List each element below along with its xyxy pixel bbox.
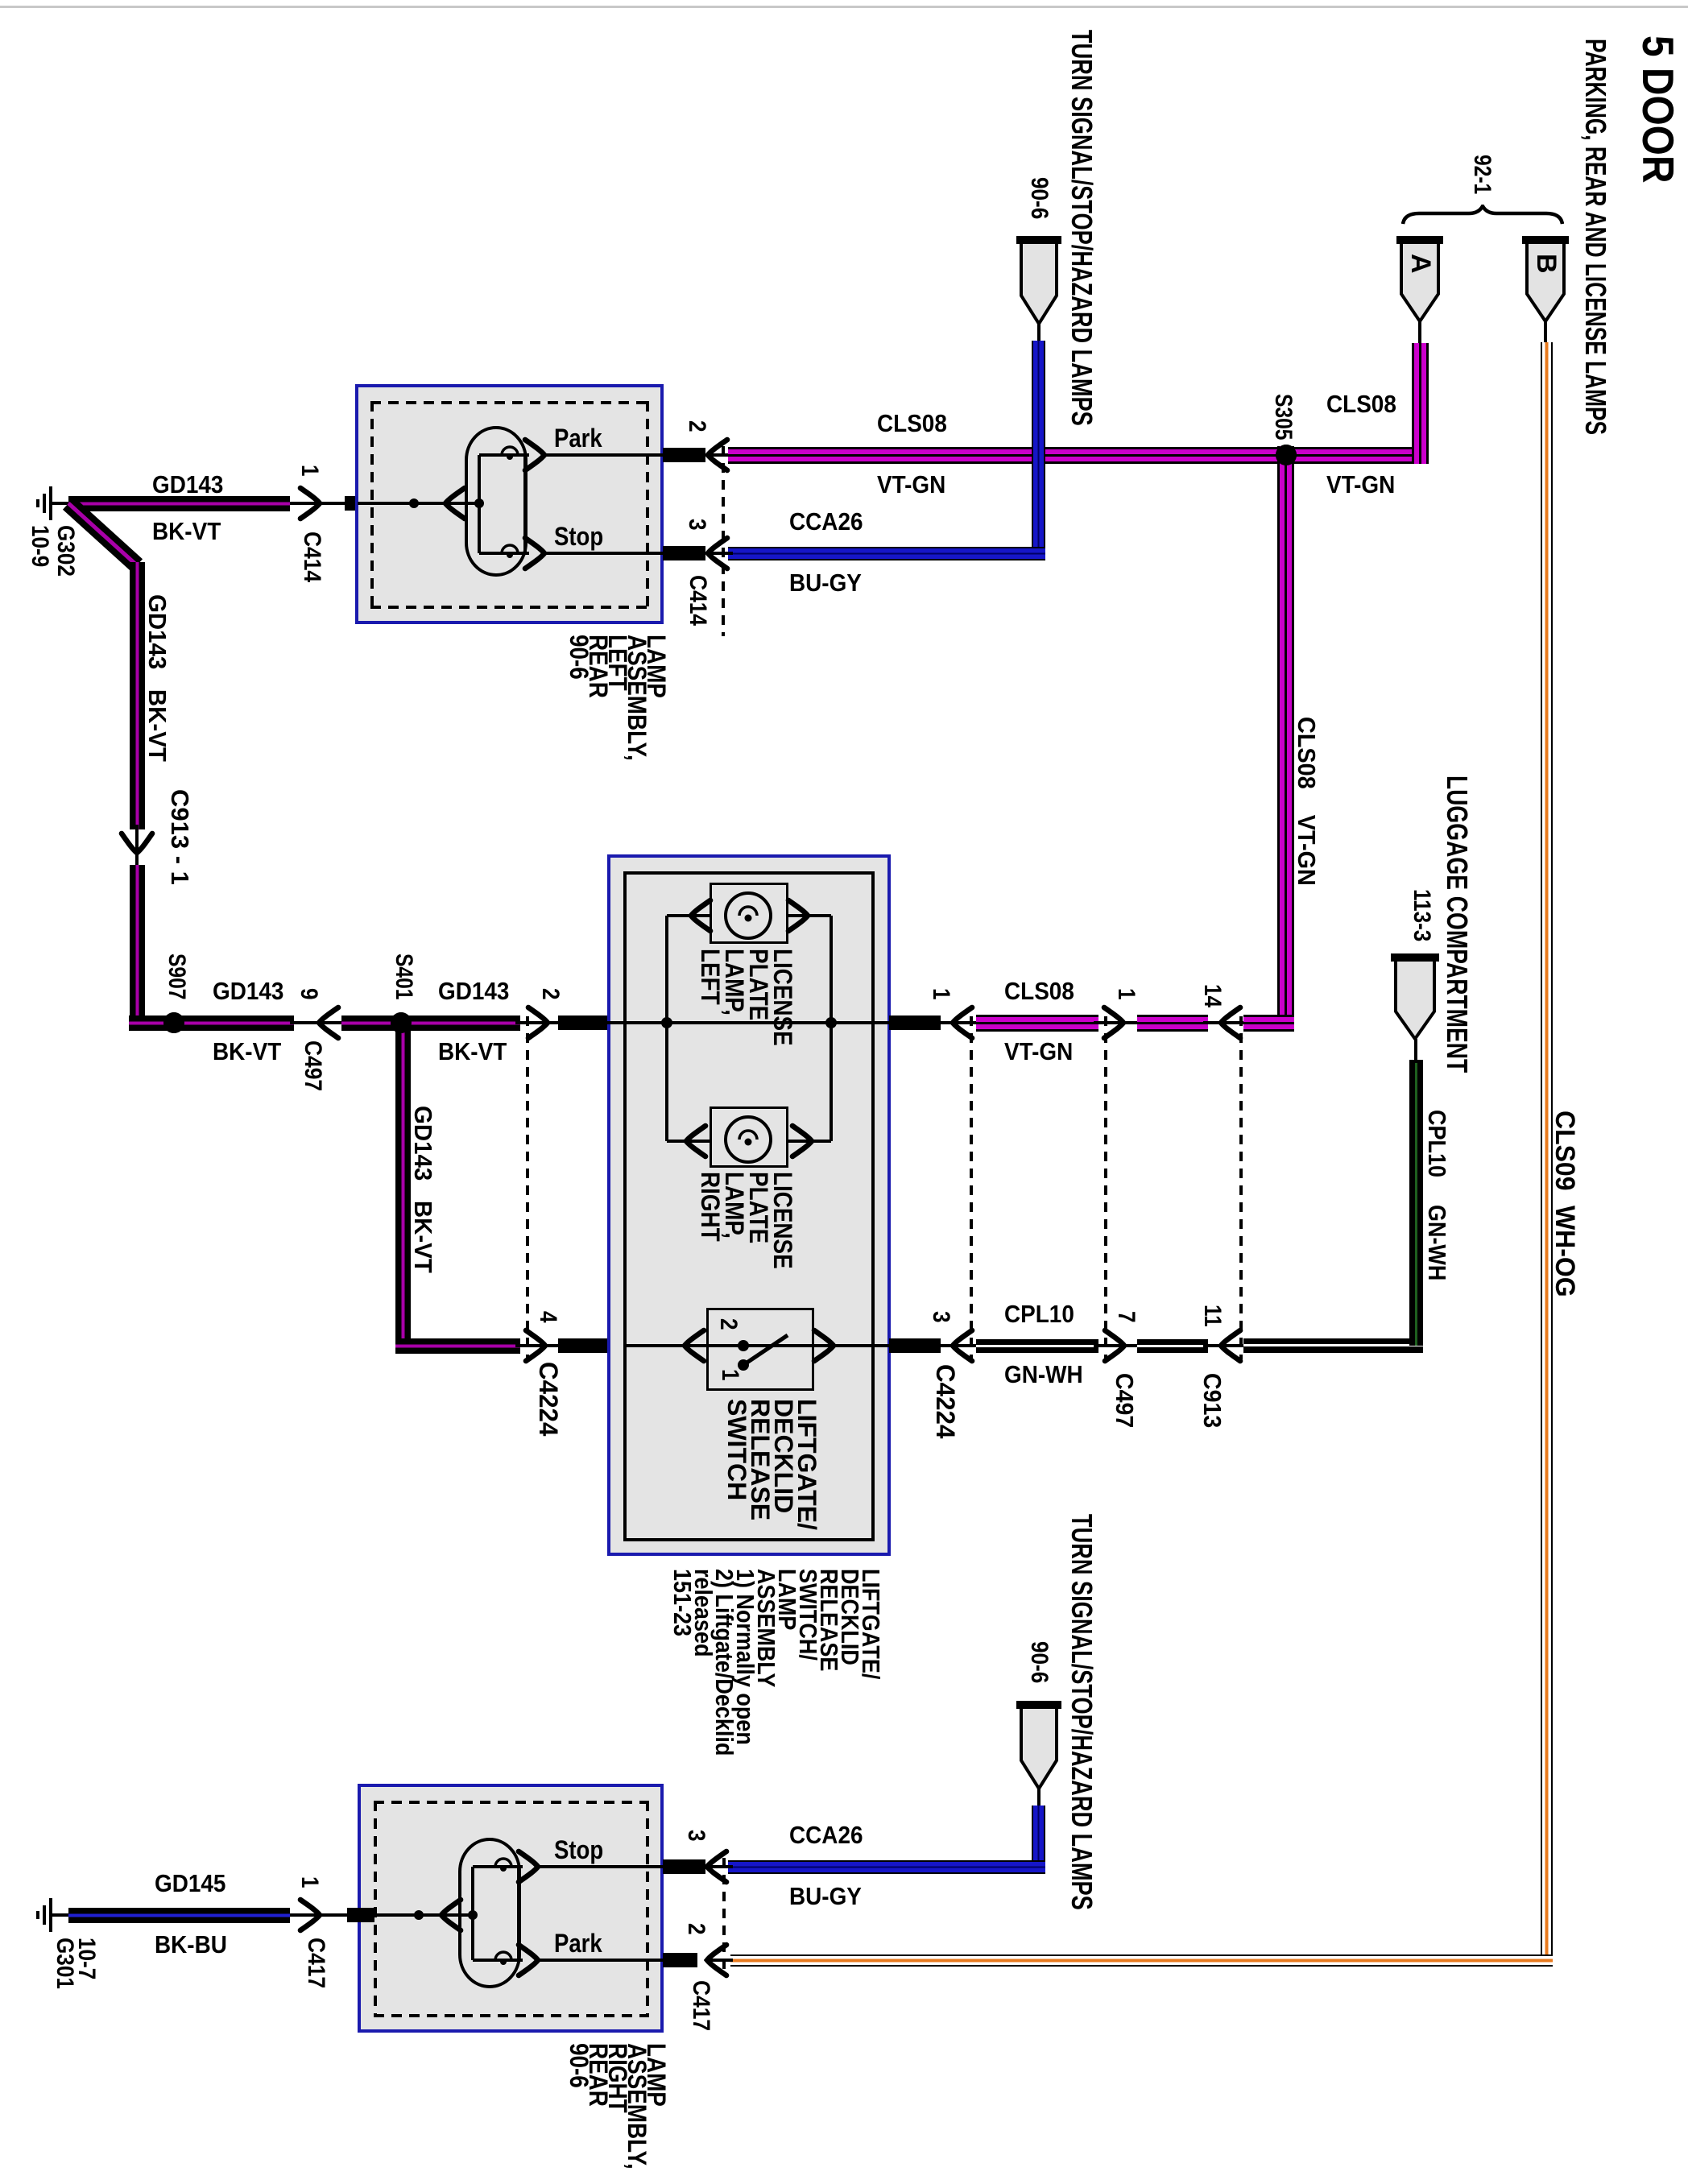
stub pin4 into middle box xyxy=(558,1338,610,1353)
label C414 left xyxy=(300,532,325,582)
switch pin2 dot xyxy=(738,1340,749,1351)
connector boundary C497 xyxy=(1104,1016,1107,1359)
connector arrow C414 pin1 xyxy=(297,485,323,522)
subtitle PARKING REAR AND LICENSE LAMPS xyxy=(1580,39,1611,435)
bulb dual filament left rear xyxy=(465,426,527,577)
connector arrow pin2 middle box xyxy=(525,1004,551,1041)
connector arrow pin2 xyxy=(705,436,730,474)
connector arrow pin1 xyxy=(949,1004,975,1041)
wire thin CPL10 at C913 xyxy=(1203,1344,1248,1347)
arrow lamp right < xyxy=(683,1123,709,1160)
bulb dual filament right rear rail right xyxy=(517,1867,520,1960)
pin 4 (C4224 left) xyxy=(536,1311,561,1323)
label CLS08 VT-GN vertical xyxy=(1293,717,1319,886)
label Stop xyxy=(554,523,603,551)
wire thin to C417 pin1 xyxy=(290,1913,360,1917)
connector arrow C417 pin1 xyxy=(297,1897,323,1934)
switch label 1 xyxy=(718,1369,743,1381)
label Park xyxy=(554,425,602,453)
wire bulb entry xyxy=(358,502,479,505)
inner dashed boundary xyxy=(370,401,649,404)
wire B lead xyxy=(1544,321,1547,346)
wire thin park-CLS09 xyxy=(707,1959,733,1962)
license plate lamp left circle xyxy=(723,891,773,941)
inner dashed boundary bottom box xyxy=(374,1801,649,1804)
connector A xyxy=(1396,236,1443,325)
label 10-9 xyxy=(27,525,53,567)
label S305 xyxy=(1271,394,1297,440)
stub pin1 out of middle box xyxy=(889,1015,941,1030)
bulb dual filament right rear filament bottom xyxy=(494,1950,513,1970)
label Park bottom xyxy=(554,1930,602,1958)
switch pin1 dot xyxy=(738,1359,749,1371)
bulb dual filament right rear rail left xyxy=(471,1867,474,1960)
wire park inside box bottom xyxy=(538,1959,668,1962)
connector arrow C497 pin7 xyxy=(1102,1327,1127,1364)
wire GD143 S401-pin4 xyxy=(395,1338,520,1354)
stub stop pin3 bottom xyxy=(663,1859,705,1874)
connector arrow pin3 xyxy=(949,1327,975,1364)
arrow switch > xyxy=(811,1327,837,1364)
stub park pin2 xyxy=(663,448,705,462)
bulb dual filament left rear filament bottom xyxy=(500,544,519,563)
wire GD143 vertical drop xyxy=(130,562,145,829)
connector arrow C913 pin14 xyxy=(1218,1004,1243,1041)
wire switch row inside box xyxy=(623,1344,874,1347)
junction dot bulb rail bottom xyxy=(468,1910,478,1920)
wire thin CPL10 at C497 xyxy=(1094,1344,1144,1347)
label VT-GN right xyxy=(1326,472,1395,498)
stub pin2 into middle box xyxy=(558,1015,610,1030)
bulb dual filament right rear xyxy=(458,1838,521,1988)
splice S401 overlay xyxy=(391,1012,412,1033)
arrow lamp left < xyxy=(688,897,714,934)
label LAMP ASSEMBLY LEFT REAR 90-6 xyxy=(569,635,666,761)
wire thin to C414 pin1 xyxy=(290,502,358,505)
wire CLS08 seg C497-C913 xyxy=(1137,1015,1208,1032)
label BU-GY bottom xyxy=(789,1884,862,1910)
label CPL10 xyxy=(1004,1301,1074,1328)
lamp assembly right rear box xyxy=(358,1784,664,2033)
wire 90-6 bottom lead xyxy=(1037,1789,1041,1809)
wire CLS09 WH-OG bottom xyxy=(730,1954,1553,1967)
connector boundary C4224 left xyxy=(526,1016,529,1359)
label GN-WH riser xyxy=(1423,1205,1450,1280)
wire CPL10 seg C4224-C497 xyxy=(976,1339,1098,1353)
label C497 right xyxy=(1111,1373,1137,1428)
connector arrow pin3 xyxy=(705,535,730,572)
wire thin pin3 xyxy=(874,1344,978,1347)
splice S907 overlay xyxy=(163,1012,184,1033)
wire CPL10 GN-WH riser xyxy=(1409,1060,1423,1346)
switch label 2 xyxy=(716,1318,742,1330)
bulb dual filament left rear rail right xyxy=(523,455,527,553)
wire stop inside box xyxy=(544,552,668,555)
stub pin3 out of middle box xyxy=(889,1338,941,1353)
bulb dual filament right rear branch bottom xyxy=(473,1959,523,1962)
license lamps / liftgate switch assembly box xyxy=(607,854,891,1556)
connector boundary C417 xyxy=(722,1858,726,1971)
wire CPL10 seg C497-C913 xyxy=(1137,1339,1208,1353)
wire thin at C4224 pin4 xyxy=(515,1344,612,1347)
stub park pin2 bottom xyxy=(663,1953,697,1967)
junction dot rail left xyxy=(661,1017,672,1028)
pin 3 (C417) xyxy=(684,1830,710,1842)
wire CLS08 drop from S305 xyxy=(1277,446,1294,1032)
pin 9 (C497) xyxy=(296,988,322,1000)
label LAMP ASSEMBLY RIGHT REAR 90-6 xyxy=(569,2043,666,2170)
junction dot entry xyxy=(409,498,419,508)
pin 3 (C4224 right) xyxy=(929,1311,954,1323)
label LIFTGATE DECKLID RELEASE SWITCH xyxy=(725,1399,818,1530)
ground G302 xyxy=(49,486,52,520)
label CLS09 xyxy=(1549,1111,1578,1190)
connector arrow C913-1 xyxy=(118,830,155,856)
label C913 - 1 xyxy=(166,789,192,885)
label GD143 mid1 xyxy=(213,978,283,1005)
arrow lamp right > xyxy=(789,1123,815,1160)
pin 1 (C497) xyxy=(1114,988,1140,1000)
label BK-VT mid1 xyxy=(213,1039,281,1065)
label liftgate footnote xyxy=(672,1569,881,1756)
wire thin at C913-1 xyxy=(135,825,139,868)
connector 113-3 xyxy=(1391,953,1439,1042)
connector boundary C414 xyxy=(722,446,725,636)
wire GD143 S907-S401 xyxy=(165,1015,294,1031)
pin 1 (C417 left) xyxy=(297,1876,323,1888)
label BK-VT mid2 xyxy=(438,1039,507,1065)
label 113-3 xyxy=(1409,889,1435,941)
arrow stop filament bottom xyxy=(515,1848,541,1885)
pin 1 (C4224 right) xyxy=(929,988,954,1000)
label CCA26 bottom xyxy=(789,1822,863,1849)
label GD145 xyxy=(155,1871,225,1897)
junction dot rail right xyxy=(825,1017,837,1028)
wire CLS08 VT-GN top xyxy=(728,447,1428,464)
bulb dual filament right rear branch top xyxy=(473,1865,523,1868)
label VT-GN lower xyxy=(1004,1039,1073,1065)
wire thin pin1 xyxy=(874,1021,978,1024)
label Stop bottom xyxy=(554,1837,603,1864)
label BK-VT (ground wire) xyxy=(152,519,221,545)
label 10-7 xyxy=(74,1938,100,1979)
arrow park filament bottom xyxy=(515,1942,541,1979)
wire A lead xyxy=(1418,321,1421,346)
wire thin at C913 xyxy=(1203,1021,1248,1024)
wire CPL10 seg C913-riser xyxy=(1243,1339,1423,1353)
bulb dual filament left rear branch bottom xyxy=(479,552,529,555)
arrow switch < xyxy=(681,1327,707,1364)
wire CCA26 bottom riser xyxy=(1032,1806,1045,1874)
wire lamp rail right xyxy=(830,916,833,1141)
label CLS08 lower xyxy=(1004,978,1074,1005)
arrow bulb common xyxy=(442,485,468,522)
pin 14 (C913) xyxy=(1200,984,1226,1007)
connector arrow pin2 bottom xyxy=(704,1942,730,1979)
label C417 left xyxy=(304,1938,329,1988)
connector arrow pin3 bottom xyxy=(704,1848,730,1885)
label C414 right xyxy=(685,575,711,626)
connector 90-6 top xyxy=(1016,236,1061,327)
junction dot entry bottom xyxy=(414,1910,424,1920)
label CLS08 right xyxy=(1326,391,1396,418)
label C4224 right xyxy=(931,1364,958,1438)
label S401 xyxy=(391,953,417,999)
label LUGGAGE COMPARTMENT xyxy=(1442,776,1472,1073)
pin 2 (C4224 left) xyxy=(538,988,564,1000)
bulb dual filament left rear filament top xyxy=(500,445,519,465)
wire CCA26 BU-GY top xyxy=(728,547,1045,560)
wire lamp rail left xyxy=(665,916,668,1141)
wire CLS08 drop from A xyxy=(1412,343,1429,464)
arrow stop filament xyxy=(522,535,548,572)
label 90-6 top xyxy=(1027,177,1053,219)
wire thin stop-CCA26 xyxy=(708,552,733,555)
label 92-1 xyxy=(1470,155,1496,194)
pin 3 (C414 right) xyxy=(685,519,710,531)
lamp assembly left rear box xyxy=(355,384,664,624)
wire stop inside box bottom xyxy=(538,1865,668,1868)
license plate lamp right box xyxy=(710,1106,788,1168)
label GD143 mid2 xyxy=(438,978,509,1005)
wire 90-6 lead xyxy=(1037,324,1041,345)
arrow park filament xyxy=(522,436,548,474)
label GD143 (ground wire) xyxy=(152,472,223,498)
arrow lamp left > xyxy=(785,897,811,934)
stub into left lamp box xyxy=(345,496,372,511)
label G302 xyxy=(53,525,79,577)
label BK-BU xyxy=(155,1932,227,1959)
wire GD143 below C913-1 xyxy=(130,865,145,1023)
connector boundary C913 xyxy=(1239,1016,1243,1359)
label TURN SIGNAL STOP HAZARD LAMPS bottom xyxy=(1066,1514,1097,1910)
pin 2 (C417) xyxy=(684,1923,710,1935)
license plate lamp left box xyxy=(710,883,788,944)
label TURN SIGNAL STOP HAZARD LAMPS top xyxy=(1066,30,1097,426)
liftgate/decklid release switch box xyxy=(706,1308,814,1391)
inner solid boundary xyxy=(623,871,875,1541)
splice S305 overlay xyxy=(1276,445,1297,465)
pin 7 (C497) xyxy=(1114,1311,1140,1323)
wire GD143 BK-VT from G302 xyxy=(68,496,290,511)
label LICENSE PLATE LAMP LEFT xyxy=(698,949,795,1046)
connector arrow C497 pin1 xyxy=(1101,1004,1127,1041)
connector arrow pin4 middle box xyxy=(523,1327,548,1364)
connector 90-6 bottom xyxy=(1016,1701,1061,1792)
ground G301 xyxy=(49,1898,52,1932)
brace 92-1 xyxy=(1401,205,1564,225)
wire CLS08 seg C913-corner xyxy=(1243,1015,1294,1032)
label GD143 BK-VT vertical xyxy=(143,594,170,762)
wire GD143 to S401 xyxy=(341,1015,411,1031)
connector arrow pin9 xyxy=(316,1004,341,1041)
pin 11 (C913) xyxy=(1200,1305,1226,1327)
wire lamp branch top xyxy=(667,914,831,917)
stub into right lamp box xyxy=(347,1908,374,1922)
label VT-GN top xyxy=(877,472,945,498)
wire 113-3 lead xyxy=(1414,1039,1417,1063)
pin 2 (C414 right) xyxy=(685,420,710,432)
connector boundary C4224 right xyxy=(970,1016,973,1359)
switch blade xyxy=(738,1327,794,1371)
license plate lamp right circle xyxy=(723,1115,773,1164)
label CPL10 riser xyxy=(1423,1110,1450,1177)
junction dot bulb rail xyxy=(474,498,484,508)
splice S907 xyxy=(163,1012,184,1033)
wire main y1270 inside box xyxy=(520,1021,874,1024)
wire CCA26 riser xyxy=(1032,341,1045,560)
stub stop pin3 xyxy=(663,546,705,560)
wire thin at C4224 pin2 xyxy=(515,1021,612,1024)
label C497 left xyxy=(300,1040,326,1091)
splice S401 xyxy=(391,1012,412,1033)
wire thin at C497 pin9 xyxy=(290,1021,346,1024)
label CLS08 top xyxy=(877,411,947,437)
label 90-6 bottom xyxy=(1027,1641,1053,1683)
arrow bulb common bottom xyxy=(438,1897,464,1934)
label S907 xyxy=(164,953,190,999)
label C913 right xyxy=(1198,1373,1225,1428)
wire CLS09 WH-OG right edge xyxy=(1541,342,1553,1967)
wire CPL10 riser corner xyxy=(1243,1338,1423,1352)
bulb dual filament left rear branch top xyxy=(479,453,529,457)
connector B xyxy=(1522,236,1569,325)
label GD143 BK-VT S401 drop xyxy=(409,1106,436,1273)
label C417 right xyxy=(689,1980,714,2031)
connector arrow C913 pin11 xyxy=(1218,1327,1243,1364)
splice S305 xyxy=(1276,445,1297,465)
label BU-GY top xyxy=(789,570,862,597)
label C4224 left xyxy=(534,1362,561,1436)
wire GD143 to S907 xyxy=(129,1015,193,1031)
wire thin park-CLS08 xyxy=(708,453,733,457)
wire GD143 diagonal bend xyxy=(60,491,157,580)
wire GD143 S401-pin2 xyxy=(411,1015,520,1031)
wire CLS08 seg C4224-C497 xyxy=(976,1015,1098,1032)
label CCA26 top xyxy=(789,509,863,536)
label WH-OG xyxy=(1549,1206,1578,1297)
wire GD145 BK-BU xyxy=(68,1908,290,1923)
bulb dual filament right rear filament top xyxy=(494,1857,513,1876)
wire thin at C497 xyxy=(1094,1021,1144,1024)
pin 1 (C414 left) xyxy=(297,465,323,477)
wire lamp branch bottom xyxy=(667,1140,831,1143)
wire GD143 S401 drop xyxy=(395,1023,411,1354)
title 5 DOOR xyxy=(1634,35,1681,183)
label LICENSE PLATE LAMP RIGHT xyxy=(698,1172,795,1269)
wire thin stop-CCA26 bottom xyxy=(707,1865,733,1868)
wire park inside box xyxy=(544,453,668,457)
wire bulb entry bottom xyxy=(360,1913,473,1917)
wire CCA26 BU-GY bottom xyxy=(728,1860,1045,1874)
label G301 xyxy=(52,1938,78,1989)
bulb dual filament left rear rail left xyxy=(478,455,481,553)
label GN-WH xyxy=(1004,1362,1083,1388)
